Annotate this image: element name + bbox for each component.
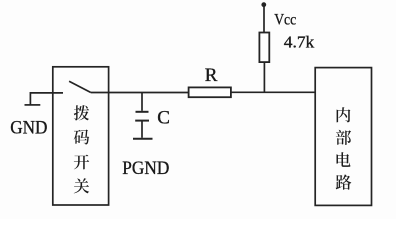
svg-text:Vcc: Vcc — [274, 12, 296, 29]
svg-text:GND: GND — [10, 117, 47, 138]
svg-text:C: C — [157, 108, 170, 129]
svg-text:R: R — [205, 65, 218, 86]
svg-text:PGND: PGND — [122, 158, 169, 179]
svg-text:4.7k: 4.7k — [284, 33, 315, 52]
